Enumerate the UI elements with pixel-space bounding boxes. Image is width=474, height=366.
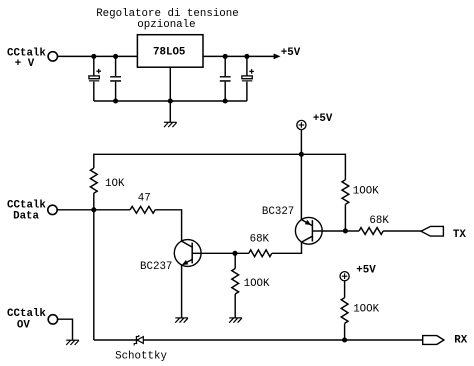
wire left rail down (93, 210, 95, 340)
wire Q1 base (201, 252, 249, 254)
capacitor C3 ceramic (224, 56, 226, 76)
resistor R4 68K (249, 250, 272, 257)
junction dot C2 top (113, 54, 118, 59)
wire P2 to R7 (344, 281, 346, 298)
svg-text:78LO5: 78LO5 (153, 47, 185, 59)
transistor Q2 BC327 (295, 217, 322, 244)
svg-text:opzionale: opzionale (137, 19, 195, 31)
wire R4 to Q2 collector (272, 242, 302, 253)
wire +5V rail (94, 153, 346, 155)
junction dot rail/Q2 emitter (299, 152, 304, 157)
wire rail to R5 (344, 154, 346, 180)
ground regulator (164, 121, 177, 123)
svg-text:TX: TX (453, 229, 466, 241)
junction dot TX node (343, 228, 348, 233)
junction dot rail C2 (113, 98, 118, 103)
resistor R7 100K (341, 298, 348, 324)
ground Q1 emitter (175, 317, 188, 319)
junction dot base/R3 (232, 251, 237, 256)
svg-text:+5V: +5V (281, 47, 301, 59)
resistor R1 10K (90, 168, 97, 193)
ground 0V (66, 339, 79, 341)
resistor R5 100K (342, 180, 349, 205)
wire input to regulator (58, 55, 138, 57)
connector TX (421, 226, 443, 236)
svg-text:68K: 68K (369, 215, 389, 227)
power +5V symbol P1 (297, 120, 306, 129)
wire R5 to TX node (344, 204, 346, 231)
junction dot C1 top (91, 54, 96, 59)
svg-text:BC237: BC237 (140, 261, 172, 273)
wire R6 to TX (383, 230, 421, 232)
svg-text:+ V: + V (15, 58, 35, 70)
wire node to R6 (345, 230, 359, 232)
wire rail to R1 (93, 154, 95, 169)
capacitor C4 electrolytic (+) (246, 56, 248, 75)
junction dot C4 top (244, 54, 249, 59)
svg-text:47: 47 (138, 192, 151, 204)
wire R7 to RX wire (344, 323, 346, 340)
svg-text:CCtalk: CCtalk (7, 200, 46, 212)
wire R1 to data node (93, 193, 95, 210)
resistor R6 68K (359, 228, 383, 235)
svg-text:BC327: BC327 (262, 206, 294, 218)
junction dot data node (91, 207, 96, 212)
regulator U1 78L05 (137, 35, 203, 67)
capacitor C1 electrolytic (+) (93, 56, 95, 75)
wire regulator ground rail (94, 100, 247, 102)
wire 78L05 ground pin (169, 67, 171, 122)
capacitor C2 ceramic (115, 56, 117, 76)
connector RX (423, 336, 444, 345)
diode D1 Schottky (137, 337, 143, 344)
wire P1 to rail (300, 130, 302, 155)
junction dot C3 top (223, 54, 228, 59)
power +5V symbol P2 (340, 272, 349, 281)
wire bottom RX line (94, 339, 423, 341)
svg-text:+5V: +5V (356, 265, 376, 277)
svg-text:+5V: +5V (313, 113, 333, 125)
wire regulator output (203, 55, 274, 57)
resistor R2 47 (130, 206, 155, 213)
svg-text:1OOK: 1OOK (244, 278, 270, 290)
svg-text:RX: RX (454, 334, 467, 346)
svg-text:Data: Data (13, 211, 39, 223)
terminal CCtalk +V (48, 52, 57, 61)
wire 0V to ground (58, 319, 73, 340)
wire R2 to Q1 collector (155, 210, 181, 241)
wire Q2 emitter (300, 154, 302, 219)
terminal CCtalk Data (48, 205, 57, 214)
svg-text:1OOK: 1OOK (353, 185, 379, 197)
svg-text:Regolatore di tensione: Regolatore di tensione (96, 8, 239, 20)
ground R3 (229, 317, 242, 319)
wire Q2 base to node (322, 230, 345, 232)
resistor R3 100K (234, 253, 236, 268)
junction dot rail center (168, 98, 173, 103)
svg-text:CCtalk: CCtalk (7, 308, 46, 320)
transistor Q1 BC237 (174, 240, 201, 267)
svg-text:1OK: 1OK (105, 178, 125, 190)
svg-text:68K: 68K (250, 234, 270, 246)
junction dot rail C3 (223, 98, 228, 103)
arrow +5V output (274, 54, 281, 60)
svg-text:Schottky: Schottky (115, 350, 167, 362)
svg-text:OV: OV (17, 319, 30, 331)
svg-text:1OOK: 1OOK (353, 304, 379, 316)
junction dot RX node (342, 337, 347, 342)
terminal CCtalk 0V (48, 315, 57, 324)
wire data terminal to R2 (57, 209, 130, 211)
wire Q1 emitter to ground (181, 265, 183, 318)
